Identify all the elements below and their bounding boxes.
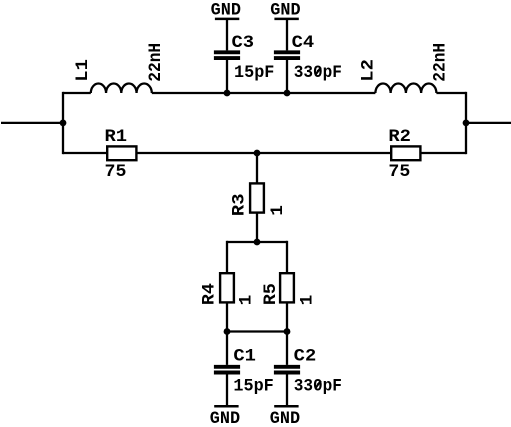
wire: resistor row [63,152,466,154]
svg-text:GND: GND [211,1,241,21]
svg-text:1: 1 [268,205,288,216]
svg-text:R4: R4 [200,283,220,305]
wire: R3 bottom lead [256,213,258,242]
wire: left input lead [1,122,63,124]
svg-text:R5: R5 [261,283,281,305]
svg-text:GND: GND [270,409,300,427]
wire: right vertical riser [465,92,467,154]
wire: top row, L1 to L2 [152,92,376,94]
resistor R1 [107,146,136,160]
svg-text:R3: R3 [230,194,250,217]
junction: mid node at R3 [254,150,261,157]
capacitor C4 [274,52,300,58]
ground GND below C1 [210,406,240,427]
capacitor C2 [274,367,300,373]
wire: R3 top lead [256,153,258,183]
junction: left input node [60,120,67,127]
junction: top node at C4 [284,90,291,97]
svg-text:GND: GND [210,409,240,427]
svg-text:75: 75 [388,162,410,182]
wire: top row, node to L1 [63,92,91,94]
wire: C1 top lead [226,332,228,365]
inductor L1 [91,84,152,94]
svg-text:75: 75 [105,162,127,182]
capacitor C3 [214,52,240,58]
junction: bottom node at C2 [284,328,291,335]
wire: C4 upper lead [286,20,288,50]
ground GND below C2 [270,406,300,427]
wire: R4 top lead [226,241,228,273]
junction: top node at C3 [224,90,231,97]
ground GND above C4 [270,1,300,21]
wire: top row, L2 to right node [436,92,466,94]
svg-text:15pF: 15pF [234,63,274,83]
svg-text:C3: C3 [232,33,255,53]
svg-text:22nH: 22nH [431,43,451,82]
resistor R5 [280,273,294,302]
svg-text:1: 1 [297,295,317,306]
svg-text:C1: C1 [233,347,256,367]
wire: C4 lower lead [286,60,288,93]
value 330pF of C2 [294,377,342,397]
svg-text:C4: C4 [292,33,315,53]
junction: splitter node [254,239,261,246]
svg-text:L2: L2 [359,59,379,82]
wire: left vertical riser [62,92,64,154]
svg-text:GND: GND [270,1,300,21]
svg-text:1: 1 [237,295,257,306]
wire: C3 upper lead [226,20,228,50]
ground GND above C3 [211,1,241,21]
svg-text:22nH: 22nH [146,43,166,82]
svg-text:L1: L1 [73,59,93,82]
svg-text:R2: R2 [388,127,411,147]
wire: C2 top lead [286,332,288,365]
wire: C1 bottom lead [226,374,228,405]
capacitor C1 [214,367,240,373]
svg-text:R1: R1 [105,127,128,147]
inductor L2 [375,84,436,94]
resistor R2 [391,146,420,160]
wire: splitter row [227,241,287,243]
wire: bottom row [227,330,287,332]
wire: R5 top lead [286,241,288,273]
svg-text:15pF: 15pF [233,377,273,397]
resistor R3 [250,183,264,212]
wire: R4 bottom lead [226,303,228,332]
junction: right output node [463,120,470,127]
svg-text:C2: C2 [294,347,317,367]
wire: right output lead [466,122,511,124]
wire: C3 lower lead [226,60,228,93]
junction: bottom node at C1 [224,328,231,335]
wire: R5 bottom lead [286,303,288,332]
value 330pF of C4 [294,63,342,83]
resistor R4 [220,273,234,302]
wire: C2 bottom lead [286,374,288,405]
